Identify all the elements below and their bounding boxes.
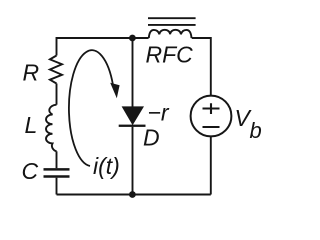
- svg-text:i(t): i(t): [93, 153, 120, 179]
- capacitor C top plate: [44, 168, 70, 171]
- wire below source to bottom rail: [210, 136, 212, 194]
- wire top-left: left vertical top segment and top horizontal wire: [57, 38, 133, 56]
- wire bottom rail: [57, 194, 211, 196]
- wire diode branch upper: [132, 38, 134, 107]
- RFC core line lower: [148, 24, 196, 26]
- node bottom junction dot: [129, 191, 136, 198]
- RFC core line upper: [148, 17, 196, 19]
- voltage source V_b circle: [191, 96, 232, 137]
- plus sign inside source: [203, 103, 220, 114]
- resistor R: [50, 56, 62, 84]
- current arrowhead: [110, 83, 119, 99]
- svg-text:R: R: [23, 60, 40, 86]
- wire RFC to top-right corner and down to source: [192, 38, 211, 96]
- wire between L and C: [56, 151, 58, 168]
- minus sign inside source: [203, 126, 220, 128]
- svg-text:b: b: [250, 118, 262, 143]
- inductor L: [46, 105, 57, 152]
- wire diode branch lower: [132, 127, 134, 195]
- diode D triangle: [122, 106, 144, 125]
- inductor RFC: [149, 30, 192, 38]
- diode D cathode bar: [119, 125, 146, 127]
- svg-text:C: C: [22, 158, 39, 184]
- wire below C to bottom rail: [56, 178, 58, 195]
- wire between R and L: [56, 84, 58, 105]
- svg-text:RFC: RFC: [146, 42, 194, 68]
- node top junction dot: [129, 35, 136, 42]
- current loop arrow i(t) arc: [69, 50, 113, 166]
- svg-text:D: D: [143, 125, 160, 151]
- wire from top node to RFC: [132, 37, 148, 39]
- svg-text:L: L: [25, 112, 38, 138]
- capacitor C bottom plate: [44, 175, 70, 178]
- svg-text:−r: −r: [148, 100, 170, 126]
